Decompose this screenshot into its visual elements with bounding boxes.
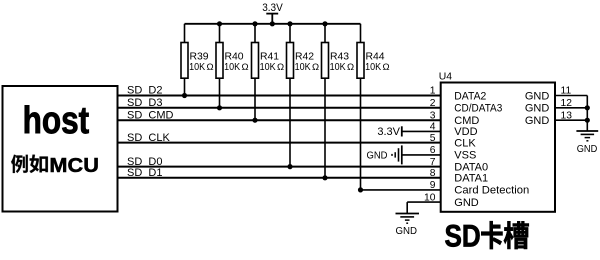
resistor R40 10K — [216, 24, 249, 108]
junction SD_D3 tap — [217, 105, 222, 110]
wire SD_D1 — [118, 177, 441, 179]
junction rail/R43 — [322, 21, 327, 26]
wire SD_D3 — [118, 107, 441, 109]
svg-text:GND: GND — [525, 115, 550, 127]
wire SD_CLK — [118, 142, 441, 144]
svg-text:Ω: Ω — [207, 62, 214, 73]
junction SD_D0 tap — [287, 164, 292, 169]
svg-text:DATA0: DATA0 — [454, 161, 488, 173]
resistor R43 10K — [322, 24, 355, 178]
wire pin4 3.3V stub — [402, 130, 441, 132]
svg-text:SD_D2: SD_D2 — [127, 85, 162, 97]
svg-text:8: 8 — [430, 168, 436, 179]
svg-text:SD_D3: SD_D3 — [127, 97, 162, 109]
svg-text:10K: 10K — [189, 62, 205, 73]
label SD卡槽 — [445, 218, 529, 253]
svg-text:1: 1 — [430, 86, 436, 97]
svg-text:DATA2: DATA2 — [454, 90, 486, 102]
svg-text:Ω: Ω — [312, 62, 319, 73]
host block — [3, 86, 118, 212]
svg-text:Ω: Ω — [277, 62, 284, 73]
svg-text:GND: GND — [395, 226, 417, 237]
svg-text:VDD: VDD — [454, 126, 477, 138]
svg-text:7: 7 — [430, 157, 436, 168]
svg-text:Ω: Ω — [383, 62, 390, 73]
svg-text:10K: 10K — [224, 62, 240, 73]
wire power rail — [185, 23, 361, 25]
junction rail/R42 — [287, 21, 292, 26]
junction pin13/gnd — [585, 118, 590, 123]
junction pin9 tap — [358, 187, 363, 192]
wire pin 13 stub — [555, 119, 587, 121]
svg-text:10K: 10K — [330, 62, 346, 73]
junction rail/R41 — [252, 21, 257, 26]
svg-text:3.3V: 3.3V — [262, 2, 283, 14]
svg-text:10K: 10K — [365, 62, 381, 73]
svg-text:U4: U4 — [439, 72, 453, 83]
svg-text:DATA1: DATA1 — [454, 173, 488, 185]
junction SD_D2 tap — [182, 93, 187, 98]
svg-text:10K: 10K — [295, 62, 311, 73]
resistor R42 10K — [287, 24, 320, 167]
wire right gnd vertical — [586, 96, 588, 132]
IC U4 box — [441, 83, 555, 212]
junction SD_CMD tap — [252, 118, 257, 123]
junction pin12/gnd — [585, 105, 590, 110]
svg-text:CD/DATA3: CD/DATA3 — [454, 103, 502, 115]
svg-text:host: host — [23, 100, 90, 142]
svg-text:GND: GND — [367, 150, 388, 161]
svg-text:3: 3 — [430, 110, 436, 121]
junction rail/R40 — [217, 21, 222, 26]
ground right — [576, 130, 598, 132]
svg-text:CMD: CMD — [454, 115, 479, 127]
ground pin10 — [406, 202, 408, 213]
svg-text:3.3V: 3.3V — [377, 126, 400, 138]
wire pin 12 stub — [555, 107, 587, 109]
svg-text:GND: GND — [525, 103, 550, 115]
wire power stem — [271, 14, 273, 24]
svg-text:Card Detection: Card Detection — [454, 185, 529, 197]
svg-text:SD: SD — [445, 218, 481, 253]
wire pin10 GND stub — [407, 201, 441, 203]
svg-text:VSS: VSS — [454, 150, 476, 162]
svg-text:Ω: Ω — [347, 62, 354, 73]
resistor R44 10K — [357, 24, 390, 190]
svg-text:Ω: Ω — [242, 62, 249, 73]
junction SD_D1 tap — [322, 175, 327, 180]
svg-text:GND: GND — [577, 144, 598, 155]
wire pin9 card-detect (from R44) — [361, 189, 441, 191]
label 例如MCU — [11, 154, 99, 177]
svg-text:SD_CMD: SD_CMD — [127, 109, 174, 121]
wire pin 11 stub — [555, 95, 587, 97]
svg-text:GND: GND — [525, 90, 550, 102]
wire SD_D2 — [118, 95, 441, 97]
svg-text:SD_CLK: SD_CLK — [127, 132, 170, 144]
svg-text:SD_D1: SD_D1 — [127, 167, 162, 179]
resistor R41 10K — [252, 24, 285, 120]
svg-text:10K: 10K — [260, 62, 276, 73]
svg-text:5: 5 — [430, 133, 436, 144]
resistor R39 10K — [181, 24, 214, 96]
power port 3.3V pin4 — [401, 126, 403, 136]
junction rail/power — [270, 21, 275, 26]
svg-text:MCU: MCU — [49, 154, 98, 177]
wire pin6 VSS stub — [402, 154, 440, 156]
svg-text:GND: GND — [454, 197, 479, 209]
svg-text:2: 2 — [430, 98, 436, 109]
svg-text:CLK: CLK — [454, 137, 476, 149]
ground port VSS — [401, 145, 403, 164]
svg-text:SD_D0: SD_D0 — [127, 156, 162, 168]
wire SD_D0 — [118, 166, 441, 168]
wire SD_CMD — [118, 119, 441, 121]
